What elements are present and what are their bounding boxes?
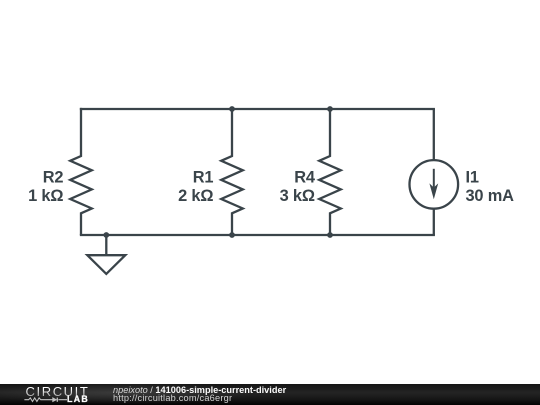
svg-text:I1: I1: [466, 168, 479, 186]
svg-text:30 mA: 30 mA: [466, 187, 515, 205]
svg-text:R2: R2: [43, 168, 64, 186]
svg-text:1 kΩ: 1 kΩ: [28, 187, 63, 205]
svg-text:R4: R4: [294, 168, 316, 186]
svg-text:2 kΩ: 2 kΩ: [178, 187, 213, 205]
svg-text:3 kΩ: 3 kΩ: [280, 187, 315, 205]
svg-text:R1: R1: [193, 168, 214, 186]
